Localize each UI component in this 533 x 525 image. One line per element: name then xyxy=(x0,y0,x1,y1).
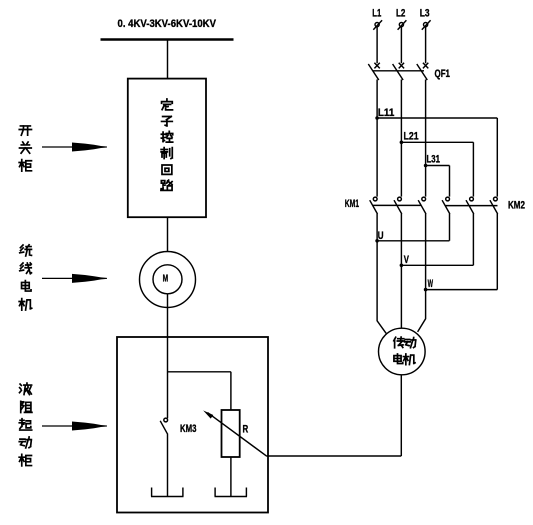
svg-text:KM2: KM2 xyxy=(508,200,525,212)
svg-text:L2: L2 xyxy=(396,8,405,20)
svg-text:V: V xyxy=(404,254,410,266)
svg-text:KM1: KM1 xyxy=(345,198,359,210)
svg-text:QF1: QF1 xyxy=(435,68,451,80)
svg-text:L11: L11 xyxy=(378,107,394,119)
svg-text:L3: L3 xyxy=(420,8,430,20)
svg-text:W: W xyxy=(428,278,434,290)
svg-text:R: R xyxy=(243,424,249,436)
svg-text:L21: L21 xyxy=(404,131,419,143)
svg-text:M: M xyxy=(163,273,169,285)
svg-text:0. 4KV-3KV-6KV-10KV: 0. 4KV-3KV-6KV-10KV xyxy=(118,18,217,30)
svg-text:L31: L31 xyxy=(427,154,441,166)
svg-text:U: U xyxy=(378,230,384,242)
svg-text:KM3: KM3 xyxy=(180,423,196,435)
svg-text:L1: L1 xyxy=(372,8,381,20)
